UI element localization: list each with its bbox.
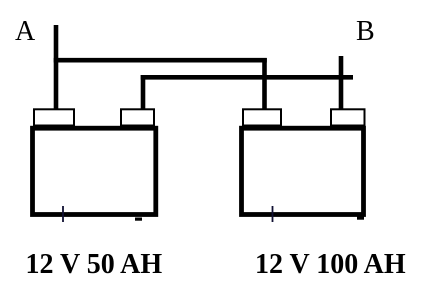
wire: vertical drop to battery 2 positive terminal bbox=[262, 58, 267, 112]
battery BT1 minus mark bbox=[135, 218, 142, 221]
wire: terminal B vertical lead bbox=[339, 56, 344, 112]
battery BT2 minus mark bbox=[357, 217, 364, 220]
wire: terminal A vertical lead bbox=[54, 25, 59, 112]
wire: top horizontal bus from A bbox=[54, 58, 267, 63]
wire: vertical drop to battery 1 negative terminal bbox=[141, 75, 146, 112]
svg-text:12 V 100 AH: 12 V 100 AH bbox=[255, 249, 406, 280]
svg-text:12 V 50 AH: 12 V 50 AH bbox=[26, 249, 163, 280]
svg-text:B: B bbox=[356, 16, 375, 47]
battery BT1 plus tick bbox=[62, 206, 64, 222]
battery BT1 body (12 V 50 AH) bbox=[33, 128, 156, 214]
svg-text:A: A bbox=[15, 16, 36, 47]
wire: second horizontal bus bbox=[141, 75, 353, 80]
battery BT1 left terminal post bbox=[34, 109, 74, 125]
battery BT2 left terminal post bbox=[243, 109, 281, 125]
battery BT2 right terminal post bbox=[331, 109, 365, 125]
battery BT1 right terminal post bbox=[121, 109, 154, 125]
battery BT2 body (12 V 100 AH) bbox=[242, 128, 364, 214]
battery BT2 plus tick bbox=[272, 206, 274, 222]
